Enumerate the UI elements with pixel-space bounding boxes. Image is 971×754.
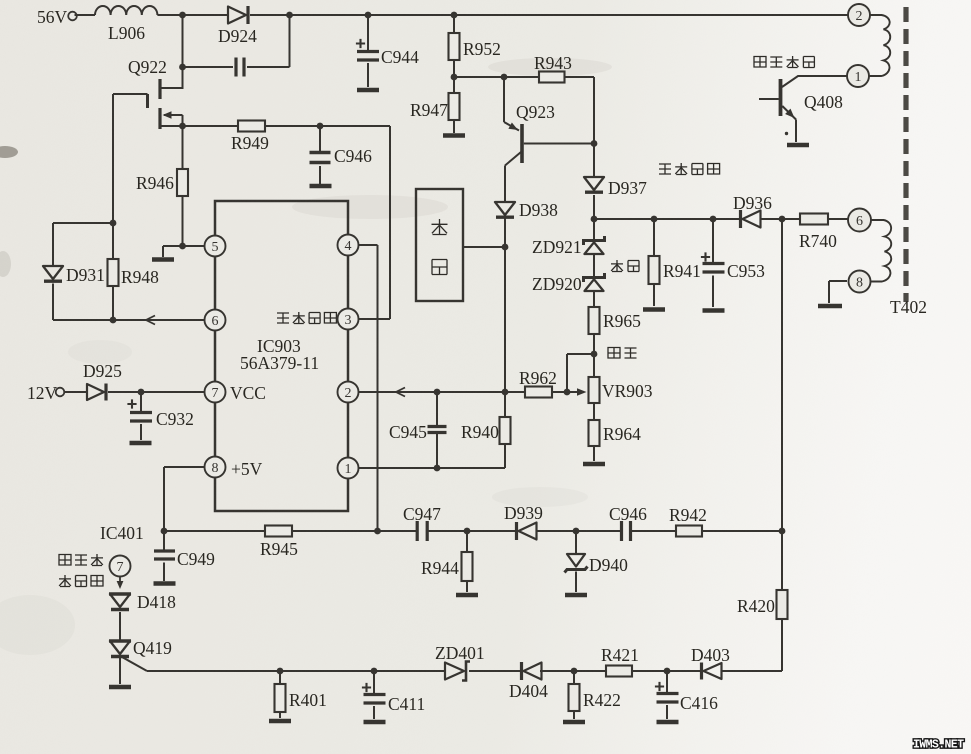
wire ZD401 to D404 (469, 670, 521, 672)
diode D940 (zener) (575, 531, 577, 553)
label 行输出管 (horizontal output transistor) (754, 57, 766, 68)
junction R944 (464, 528, 471, 535)
ground pin5 (152, 257, 174, 262)
resistor R944 (466, 531, 468, 552)
resistor R952 (453, 15, 455, 33)
diode D924 (228, 7, 246, 24)
IC903 pin 4 (338, 235, 359, 256)
diode D936 (739, 210, 742, 228)
VR903 wiper arrow (567, 391, 581, 393)
ground C411 (364, 720, 386, 725)
IC903 pin 6 (205, 310, 226, 331)
IC903 pin 8 (205, 457, 226, 478)
junction R952/R947 (451, 74, 458, 81)
junction C946 (upper) (317, 123, 324, 130)
capacitor C946 (lower) (620, 521, 623, 541)
terminal circle 6 (T402 pin 6) (848, 209, 871, 232)
resistor R401 (279, 671, 281, 684)
junction wiper node (564, 389, 571, 396)
wire R943 to x594 column (565, 77, 595, 176)
label 脉冲出 (pulse out) (59, 575, 71, 587)
resistor R420 (777, 590, 788, 619)
zener ZD401 (445, 663, 464, 680)
diode D938 (495, 202, 515, 215)
wire T402 pin8 to ground (829, 281, 847, 303)
capacitor C949 (163, 531, 165, 550)
thyristor Q419 (110, 641, 130, 654)
junction R941 (651, 216, 658, 223)
junction R946 bottom on pin5 wire (179, 243, 186, 250)
resistor R965 (589, 307, 600, 334)
ground R941 (643, 307, 665, 312)
IC903 pin 1 (338, 458, 359, 479)
junction top rail / Q922 drain branch (179, 12, 186, 19)
wire ZD920 to R965 (593, 291, 595, 307)
wire drain branch down (182, 15, 184, 67)
ground Q408 emitter (787, 143, 809, 148)
resistor R940 (504, 392, 506, 417)
resistor R947 (453, 77, 455, 93)
arrow on pin2 wire (396, 388, 405, 397)
capacitor C946 (upper) (319, 126, 321, 151)
ground T402 pin8 (818, 304, 842, 309)
wire R948 bottom (112, 286, 114, 320)
capacitor C945 (436, 392, 438, 426)
Q922 body arrow (164, 114, 183, 116)
diode D404 (520, 662, 523, 680)
ground C946 (upper) (310, 184, 332, 189)
wire R949 to pin3 column (265, 126, 390, 319)
zener ZD920 (584, 273, 605, 282)
wire R420 up to 531 rail (781, 531, 783, 590)
resistor R941 (653, 219, 655, 256)
Q922 source lead (160, 125, 183, 127)
junction C953 (710, 216, 717, 223)
diode D937 (584, 177, 604, 190)
wire source to R949 (183, 125, 239, 127)
wire gate node to D931 (53, 223, 113, 265)
terminal circle 1 (T402 pin 1) (847, 65, 869, 87)
box 静噪 (muting) (416, 189, 463, 301)
wire pin5 row (163, 246, 205, 257)
wire pin8 to +5V rail (164, 467, 205, 531)
capacitor C411 (373, 671, 375, 693)
resistor R421 (606, 666, 632, 677)
junction C416 (664, 668, 671, 675)
ground R422 (563, 720, 585, 725)
wire pin6 row (53, 319, 205, 321)
junction Q922 drain / snubber (179, 64, 186, 71)
wire top rail L906 to D924 (157, 14, 228, 16)
junction R940 top (502, 389, 509, 396)
inductor L906 (95, 6, 157, 15)
paper grain overlay (0, 0, 1, 1)
resistor R946 (177, 169, 188, 196)
junction snubber return (286, 12, 293, 19)
junction C945 bottom (434, 465, 441, 472)
ground C953 (703, 308, 725, 313)
wire D936 node down to R420 column (781, 219, 783, 531)
wire D925 to pin7 (108, 391, 205, 393)
arrow on pin6 wire (146, 316, 155, 325)
wire D418 to Q419 (119, 612, 121, 641)
junction after D936 (779, 216, 786, 223)
ground C932 (130, 441, 152, 446)
capacitor C932 (140, 392, 142, 411)
diode D925 (87, 384, 104, 400)
IC903 pin 2 (338, 382, 359, 403)
wire pin1 row (359, 467, 506, 469)
wire R965 to VR903 (593, 334, 595, 377)
wire R948 top (112, 223, 114, 259)
wire R421 to D403 (632, 670, 701, 672)
IC903 pin 5 (205, 236, 226, 257)
IC903 pin 7 (205, 382, 226, 403)
IC903 pin 3 (338, 309, 359, 330)
IC U-IC903 box (215, 201, 348, 511)
wire D937 to OVP row (593, 195, 595, 240)
junction Q923 emitter (501, 74, 508, 81)
svg-text:IWMS.NET: IWMS.NET (913, 739, 964, 752)
wire source to R946 (182, 126, 184, 169)
scan smudges (background artifacts) (0, 58, 612, 655)
resistor R422 (573, 671, 575, 684)
resistor R948 (108, 259, 119, 286)
wire wiper to top of VR903 (取样 link) (567, 354, 594, 392)
resistor R949 (238, 121, 265, 132)
potentiometer VR903 (589, 377, 600, 403)
junction OVP row (591, 216, 598, 223)
junction Q923 base / x594 (591, 140, 598, 147)
junction R422 (571, 668, 578, 675)
junction 静噪 output (502, 244, 509, 251)
wire ZD921 to ZD920 (593, 254, 595, 277)
wire R946 to pin5 row (182, 196, 184, 246)
label 过流检测 (overcurrent detect) (277, 313, 289, 323)
wire D404 to R421 (540, 670, 606, 672)
wire D403 to R420 column (721, 619, 782, 671)
terminal circle 2 (T402 pin 2) (848, 4, 870, 26)
junction D940 (573, 528, 580, 535)
ground R401 (269, 719, 291, 724)
junction C944 (365, 12, 372, 19)
label 行激励 (line drive) (59, 555, 71, 566)
wire VR903 to R964 (593, 403, 595, 420)
winding T402 secondary (6-8) (871, 220, 892, 282)
junction C949 (161, 528, 168, 535)
wire 12V to D925 (65, 391, 88, 393)
arrow IC401 output (119, 577, 121, 583)
junction 取样 node (591, 351, 598, 358)
capacitor C944 (367, 15, 369, 50)
terminal circle 7 (IC401 pin 7) (110, 556, 131, 577)
capacitor C416 (666, 671, 668, 692)
junction C411 (371, 668, 378, 675)
wire R962 to VR903 wiper (552, 391, 567, 393)
winding T402 primary (2-1) (870, 15, 891, 76)
wire OVP row (594, 218, 848, 220)
junction C945 top (434, 389, 441, 396)
ground C944 (357, 88, 379, 93)
terminal circle 8 (T402 pin 8) (849, 271, 871, 293)
ground Q419 (109, 685, 131, 690)
wire 静噪 box to D938 column (463, 246, 505, 248)
diode D939 (515, 522, 518, 540)
wire D931 to pin6 row (52, 284, 54, 321)
zener ZD921 (584, 236, 605, 245)
T402 core (dashed) (903, 7, 908, 302)
wire 56V to L906 (75, 14, 96, 16)
ground D940 (565, 593, 587, 598)
resistor R740 (800, 214, 828, 225)
wire D938 down through pin2 row to R940 (504, 218, 506, 392)
diode D403 (700, 663, 703, 680)
resistor R945 (265, 526, 292, 537)
resistor R962 (525, 387, 552, 398)
ground R964 (583, 462, 605, 467)
junction R952 (451, 12, 458, 19)
wire pin4 to 531 rail (359, 245, 378, 531)
junction R401 (277, 668, 284, 675)
capacitor C947 (416, 521, 419, 541)
capacitor snubber (unlabeled) (234, 58, 237, 77)
label 取样 (sampling) (608, 348, 620, 359)
resistor R943 (539, 72, 565, 83)
wire +5V rail (531 row) (164, 530, 782, 532)
junction R948/pin6 row (110, 317, 117, 324)
resistor R942 (676, 526, 702, 537)
wire snubber left (183, 66, 234, 68)
ground C416 (657, 720, 679, 725)
junction C932 (138, 389, 145, 396)
label 限压 (voltage limit) (611, 260, 623, 272)
junction pin4 column (374, 528, 381, 535)
diode D931 (43, 266, 63, 279)
diode D418 (110, 594, 130, 607)
junction gate column / R948 (110, 220, 117, 227)
wire snubber right (247, 15, 290, 67)
ground R947 (443, 133, 465, 138)
wire Q419 gate diagonal to bottom rail (122, 657, 445, 671)
resistor R964 (589, 420, 600, 446)
capacitor C953 (712, 219, 714, 262)
junction Q922 source (179, 123, 186, 130)
ground R944 (456, 593, 478, 598)
label 过压保护 (overvoltage protection) (659, 164, 671, 174)
wire pin2 row (359, 391, 526, 393)
wire gate column down (112, 94, 114, 223)
ground C949 (154, 581, 176, 586)
wire 77 row (454, 76, 539, 78)
wire Q419 cathode to ground (119, 658, 121, 684)
wire top rail D924 to circle 2 (250, 14, 848, 16)
wire pin3 lead (359, 318, 391, 320)
junction R420 column top (779, 528, 786, 535)
